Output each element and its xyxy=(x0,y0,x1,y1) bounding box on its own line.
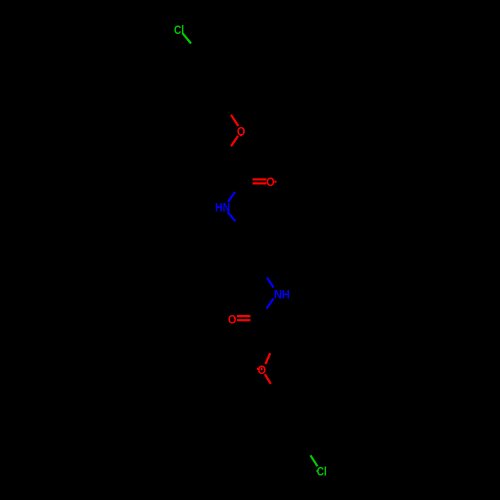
bond O4-C12 (oxygen half) xyxy=(265,374,271,384)
svg-text:Cl: Cl xyxy=(317,465,327,479)
bond O1-C5 (oxygen half) xyxy=(231,136,238,146)
double bond C6=O2 upper line xyxy=(253,178,267,180)
double bond O3=C10 upper line xyxy=(237,315,250,317)
bond stub left of O4 xyxy=(257,368,258,370)
bond N2-C10 (nitrogen half) xyxy=(267,299,274,309)
svg-text:NH: NH xyxy=(274,287,290,301)
svg-text:O: O xyxy=(266,175,274,189)
bond stub left of Cl2 xyxy=(316,470,318,472)
svg-text:Cl: Cl xyxy=(174,23,184,37)
bond C4-O1 (oxygen half, aryl ether upper) xyxy=(231,115,238,126)
bond stub right of O2 xyxy=(274,181,276,183)
bond C15-Cl2 (chlorine half) xyxy=(310,455,317,466)
double bond O3=C10 lower line xyxy=(237,319,250,321)
bond N1-C7 (nitrogen half) xyxy=(228,212,236,221)
bond C6-N1 (nitrogen half, upper amide) xyxy=(228,192,235,202)
bond C9-N2 (nitrogen half, lower amide) xyxy=(267,278,274,288)
svg-text:O: O xyxy=(228,312,236,326)
bond stub inside O4 xyxy=(261,368,263,371)
double bond C6=O2 lower line xyxy=(253,182,267,184)
bond C11-O4 (oxygen half, lower ether) xyxy=(265,353,270,364)
bond stub below O1 xyxy=(240,135,242,136)
bond Cl1-C1 (chlorine half) xyxy=(183,33,192,43)
bond stub inside O3 xyxy=(234,317,235,319)
